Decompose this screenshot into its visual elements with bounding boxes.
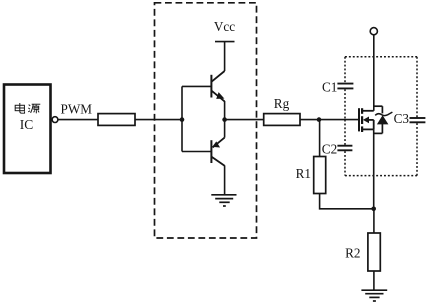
capacitor C3 (drain-source) bbox=[410, 118, 426, 122]
parasitic net dotted: C2 to bottom edge bbox=[344, 151, 346, 176]
MOSFET Q3 (N-channel) bbox=[359, 108, 374, 132]
node A: base junction dot bbox=[180, 117, 185, 122]
svg-text:Vcc: Vcc bbox=[214, 19, 235, 34]
parasitic net dotted: left edge upper (to C1) bbox=[344, 57, 346, 83]
IC box U1 (power supply IC) bbox=[4, 85, 51, 174]
wire: gate node down to R1 bbox=[319, 120, 321, 157]
resistor R2 bbox=[368, 233, 380, 271]
parasitic net dotted: right edge upper (to C3) bbox=[416, 57, 418, 117]
resistor: input series resistor bbox=[98, 114, 135, 126]
node gate: junction dot bbox=[317, 117, 322, 122]
wire: source down to junction bbox=[373, 129, 375, 208]
capacitor C2 (gate-source) bbox=[337, 146, 352, 151]
transistor Q2 (PNP) bbox=[211, 138, 224, 166]
parasitic net dotted: gate wire to C2 bbox=[344, 120, 346, 145]
wire: pin to input resistor bbox=[58, 119, 98, 121]
wire: R2 to ground bbox=[373, 271, 375, 290]
driver stage dashed box bbox=[155, 3, 257, 238]
ground (driver stage) bbox=[211, 195, 236, 206]
wire: Q1 emitter to output node bbox=[224, 101, 226, 120]
svg-text:C1: C1 bbox=[322, 80, 337, 95]
svg-text:IC: IC bbox=[20, 117, 34, 132]
svg-text:C3: C3 bbox=[394, 111, 410, 126]
wire: drain bbox=[373, 35, 375, 111]
wire: driver output to Rg bbox=[225, 119, 264, 121]
parasitic net dotted: top edge (drain) bbox=[345, 56, 417, 58]
parasitic net dotted: C3 to bottom edge bbox=[416, 123, 418, 176]
wire: Rg to gate node bbox=[300, 119, 319, 121]
wire: R1 bottom to source junction bbox=[320, 194, 374, 209]
svg-text:Rg: Rg bbox=[274, 96, 290, 111]
terminal: drain circle bbox=[370, 28, 377, 35]
Vcc rail bar bbox=[215, 41, 235, 43]
wire: Q1 base wire bbox=[182, 85, 211, 87]
node B: driver output dot bbox=[222, 117, 227, 122]
svg-text:R2: R2 bbox=[345, 245, 360, 260]
svg-text:C2: C2 bbox=[322, 141, 337, 156]
wire: Vcc to Q1 collector bbox=[224, 42, 226, 71]
capacitor C1 (gate-drain) bbox=[337, 84, 353, 89]
node source junction dot bbox=[371, 207, 376, 212]
wire: Q2 emitter from output node bbox=[224, 120, 226, 138]
terminal: PWM output pin circle bbox=[52, 117, 58, 123]
body diode D1 bbox=[374, 106, 393, 133]
transistor Q1 (NPN) bbox=[211, 71, 224, 101]
wire: Q2 collector to ground bbox=[224, 165, 226, 194]
wire: resistor to driver input node bbox=[135, 119, 182, 121]
resistor R1 bbox=[314, 157, 326, 194]
wire: base riser bbox=[181, 86, 183, 151]
wire: Q2 base wire bbox=[182, 151, 211, 153]
ground (source) bbox=[361, 290, 387, 301]
wire: gate node to MOSFET gate bbox=[319, 119, 359, 121]
parasitic net dotted: C1 to gate wire bbox=[344, 89, 346, 119]
svg-text:R1: R1 bbox=[296, 166, 311, 181]
resistor Rg bbox=[264, 114, 300, 126]
parasitic net dotted: bottom edge (source) bbox=[345, 175, 417, 177]
label 电源 (hanzi strokes) bbox=[15, 103, 24, 113]
wire: junction to R2 bbox=[373, 209, 375, 233]
svg-text:PWM: PWM bbox=[61, 102, 93, 117]
